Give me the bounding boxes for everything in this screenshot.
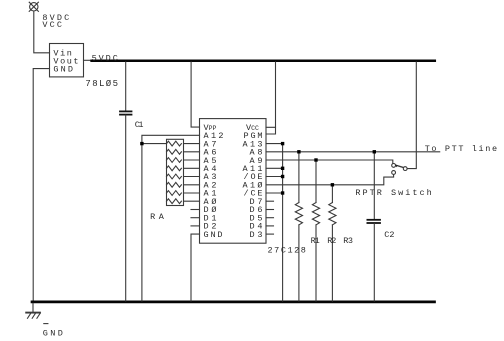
svg-text:R2: R2: [327, 236, 336, 246]
svg-text:R3: R3: [343, 236, 353, 246]
node junction R1 top / A8 line: [297, 150, 300, 153]
resistor network RA body: [167, 139, 184, 205]
wire J1 to Vin of regulator: [34, 11, 50, 53]
pin stub D0: [191, 209, 200, 211]
resistor R3: [329, 185, 336, 301]
pin stub D1: [191, 217, 200, 219]
capacitor C1: [120, 62, 132, 301]
wire regulator GND lead to ground rail: [33, 69, 49, 301]
pin stub D3: [266, 233, 274, 235]
resistor R2: [312, 160, 319, 301]
wire A11 to ground bus: [266, 167, 283, 169]
svg-text:C2: C2: [384, 230, 394, 240]
wire Vcc feed from 5VDC rail: [266, 62, 276, 127]
wire /OE to ground bus: [266, 176, 283, 178]
svg-text:C1: C1: [135, 120, 144, 130]
ground symbol (earth): [26, 303, 40, 318]
switch S1 RPTR common feed from 5VDC rail: [407, 62, 416, 169]
svg-text:78LØ5: 78LØ5: [85, 79, 118, 89]
net 5VDC power rail: [92, 60, 435, 63]
node junction R3 top / A10 line: [331, 183, 334, 186]
svg-text:GND: GND: [204, 230, 223, 240]
pin stub D4: [266, 225, 274, 227]
node junction RA common / A12 ground wire: [140, 142, 143, 145]
pin stub D6: [266, 209, 274, 211]
power connector J1 (8VDC input): [29, 2, 38, 11]
capacitor C2: [367, 152, 380, 301]
voltage regulator U2 78L05 body: [50, 44, 84, 77]
wire /CE to ground bus: [266, 192, 283, 194]
node junction A11 / ground bus: [281, 167, 284, 170]
node junction A13 / ground bus: [281, 142, 284, 145]
svg-text:R1: R1: [311, 236, 320, 246]
svg-text:5VDC: 5VDC: [92, 54, 118, 64]
wire A13 to ground bus: [266, 143, 283, 145]
pin stubs A7-A0 to RA: [184, 144, 200, 202]
svg-text:RPTR Switch: RPTR Switch: [355, 188, 431, 198]
ground bus wire (A13/A11/OE/CE): [282, 144, 284, 301]
wire A10 to switch lower throw: [266, 175, 394, 185]
wire Vpp feed from 5VDC rail: [191, 62, 199, 127]
node junction R2 top / A9 line: [314, 158, 317, 161]
pin stub D7: [266, 200, 274, 202]
wire A9 to switch upper throw: [266, 160, 393, 163]
GND label tick: [44, 323, 48, 325]
svg-text:GND: GND: [43, 329, 63, 339]
RA common wire to ground bus: [142, 143, 167, 145]
svg-text:VCC: VCC: [42, 20, 62, 30]
wire Vout lead: [84, 59, 94, 61]
resistor R1: [295, 152, 302, 301]
node junction /OE / ground bus: [281, 175, 284, 178]
wire IC GND pin to ground rail: [191, 234, 200, 301]
RA resistor elements (zigzags): [167, 141, 182, 203]
pin stub D2: [191, 225, 200, 227]
switch S1 RPTR contacts: [392, 164, 407, 175]
pin stub D5: [266, 217, 274, 219]
wire A12 to ground rail: [142, 135, 200, 301]
wire PGM tie to Vcc feed: [266, 127, 276, 134]
IC U1 27C128 body: [200, 119, 267, 244]
svg-text:GND: GND: [53, 65, 73, 75]
node junction C2 top / A8 PTT line: [373, 150, 376, 153]
node junction /CE / ground bus: [281, 191, 284, 194]
wire A8 to PTT line: [266, 151, 440, 153]
svg-text:To PTT line: To PTT line: [425, 144, 497, 154]
svg-text:27C128: 27C128: [268, 245, 306, 255]
net GND ground rail: [32, 301, 435, 304]
